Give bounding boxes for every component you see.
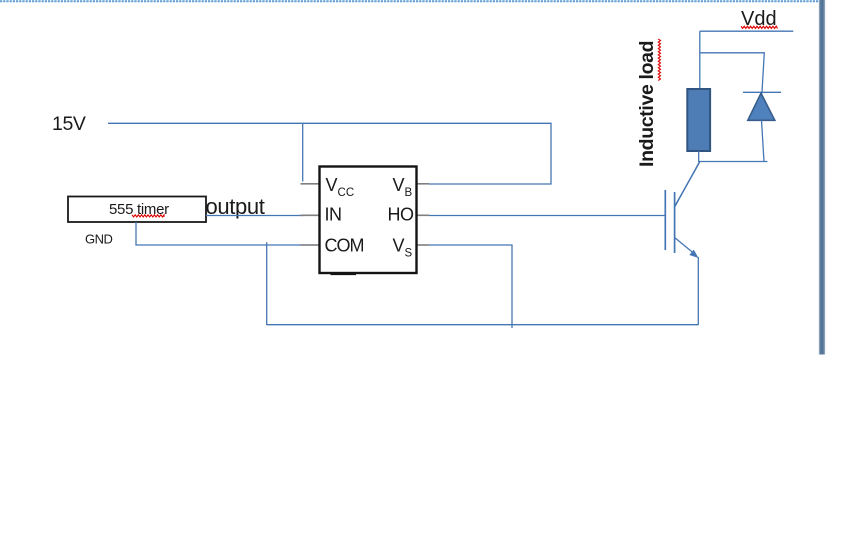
- wire diode branch top: [700, 53, 765, 94]
- transistor Q1 IGBT: [665, 162, 699, 258]
- pin stub VB: [417, 183, 429, 185]
- page top border (decorative): [0, 0, 820, 2]
- pin stub VS: [417, 244, 429, 246]
- 555 timer box: [68, 197, 206, 223]
- wire Vdd rail: [700, 30, 794, 32]
- wire 15V rail to VB: [108, 123, 551, 184]
- wire Vdd down to load: [699, 31, 701, 89]
- wire VS to bottom rail: [429, 245, 512, 328]
- wire bottom rail: [267, 324, 699, 326]
- wire COM branch down: [266, 242, 268, 325]
- svg-text:Inductive load: Inductive load: [636, 41, 658, 167]
- svg-text:15V: 15V: [52, 113, 86, 135]
- pin stub Vcc: [301, 183, 320, 185]
- wire Vcc branch: [302, 123, 304, 181]
- op-amp U1 gate driver box: [320, 167, 417, 274]
- svg-text:IN: IN: [325, 205, 342, 225]
- label Vdd: [741, 8, 778, 30]
- wire output to IN: [206, 215, 303, 217]
- pin stub HO: [417, 214, 429, 216]
- wire collector diagonal: [675, 162, 700, 207]
- wire HO to gate: [429, 215, 665, 217]
- svg-text:GND: GND: [85, 231, 113, 246]
- page right scrollbar (decorative): [819, 0, 825, 355]
- wire load bottom: [699, 151, 768, 162]
- pin stub COM: [301, 244, 320, 246]
- diode D1: [743, 92, 781, 161]
- wire GND to COM: [136, 222, 326, 245]
- wire emitter down: [697, 257, 699, 325]
- label Inductive load (rotated): [636, 39, 661, 167]
- inductive load L1: [687, 89, 710, 151]
- pin stub IN: [301, 214, 320, 216]
- svg-text:HO: HO: [388, 205, 414, 225]
- svg-text:COM: COM: [325, 236, 364, 256]
